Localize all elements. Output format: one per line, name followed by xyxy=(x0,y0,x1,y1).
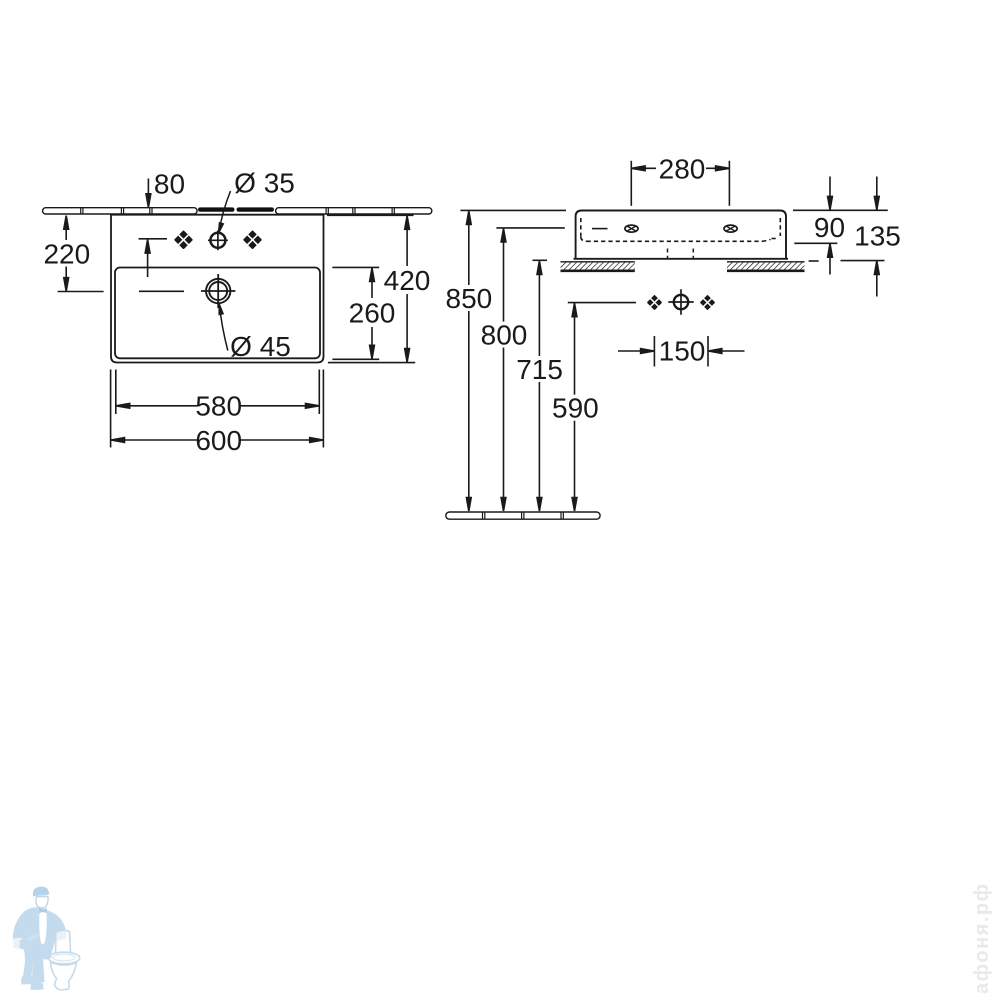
dimension 260 (inside right of plan) xyxy=(332,267,395,359)
svg-text:590: 590 xyxy=(552,393,599,424)
wrench xyxy=(26,928,47,942)
tap hole marker left (diamond) xyxy=(175,232,191,248)
leader line Ø45 xyxy=(220,306,228,351)
basin profile (front) xyxy=(574,211,789,259)
svg-text:850: 850 xyxy=(446,283,493,314)
dimension 80 (top) xyxy=(145,169,185,278)
svg-text:афоня.рф: афоня.рф xyxy=(971,882,993,994)
plumber jacket xyxy=(13,907,56,954)
basin outer rect (plan) xyxy=(111,215,324,363)
dimension 800 xyxy=(481,229,528,512)
svg-text:715: 715 xyxy=(516,354,563,385)
right cuff xyxy=(57,931,67,942)
svg-text:80: 80 xyxy=(154,169,185,200)
toilet seat xyxy=(48,952,80,964)
shirt xyxy=(39,912,47,944)
dimension 600 xyxy=(111,425,323,456)
leader line Ø35 xyxy=(219,191,231,232)
fist xyxy=(20,939,30,949)
legs xyxy=(23,948,53,984)
svg-text:150: 150 xyxy=(659,335,706,366)
shoe right xyxy=(31,982,44,990)
watermark plumber logo xyxy=(13,887,80,990)
dimension 420 (right of plan) xyxy=(327,215,430,362)
cap xyxy=(33,887,50,897)
bowtie xyxy=(39,908,47,914)
siphon fixing marker right (diamond) xyxy=(701,296,714,309)
dimension 850 xyxy=(446,211,493,511)
svg-text:90: 90 xyxy=(814,212,845,243)
basin bowl rounded rect (plan) xyxy=(115,268,320,359)
wall hatch band left xyxy=(561,262,635,271)
svg-text:280: 280 xyxy=(659,153,706,184)
svg-text:580: 580 xyxy=(195,391,242,422)
svg-text:Ø 35: Ø 35 xyxy=(234,168,295,199)
extension line 800 xyxy=(496,227,564,229)
bold wall segment left xyxy=(198,207,235,211)
siphon hole circle center xyxy=(668,289,693,314)
plumber right arm xyxy=(47,910,67,940)
floor tile row xyxy=(446,512,600,519)
svg-text:420: 420 xyxy=(384,265,431,296)
fixing hole oval left xyxy=(625,225,638,232)
tap hole circle (Ø35) xyxy=(208,230,228,250)
bold wall segment right xyxy=(237,207,275,211)
siphon fixing marker left (diamond) xyxy=(648,296,661,309)
dimension 135 xyxy=(809,177,901,297)
inner bowl dashed outline (front) xyxy=(581,218,781,241)
toilet bowl xyxy=(51,962,77,990)
dimension 590 xyxy=(552,303,636,511)
shoe left xyxy=(21,976,33,985)
svg-text:600: 600 xyxy=(195,425,242,456)
dimension 715 xyxy=(516,260,563,511)
centerline dash at drain row xyxy=(139,290,184,292)
toilet tank xyxy=(56,930,71,953)
svg-text:Ø 45: Ø 45 xyxy=(230,331,291,362)
svg-text:800: 800 xyxy=(481,320,528,351)
drain hole (Ø45) xyxy=(201,274,235,308)
centerline dash at tap-hole row xyxy=(139,238,168,240)
dimension 90 xyxy=(794,177,845,275)
left cuff xyxy=(13,938,23,949)
extension line 850 xyxy=(460,209,566,211)
wall hatch band right xyxy=(727,262,805,271)
dimension 220 (left) xyxy=(43,216,103,292)
drain dashes below profile xyxy=(668,249,694,259)
extension line top right (90/135) xyxy=(793,209,888,211)
dimension 280 (top of front view) xyxy=(631,153,729,206)
centerline dash at ovals xyxy=(592,228,608,230)
svg-text:220: 220 xyxy=(43,239,90,270)
fixing hole oval right xyxy=(724,225,737,232)
face xyxy=(36,897,48,909)
extension lines bottom (plan) xyxy=(111,370,324,448)
tap hole marker right (diamond) xyxy=(244,232,260,248)
dimension 150 xyxy=(618,335,745,366)
dimension 580 xyxy=(116,391,319,422)
svg-text:135: 135 xyxy=(854,221,901,252)
wall tile row (plan view) xyxy=(43,208,432,214)
svg-text:260: 260 xyxy=(349,297,396,328)
